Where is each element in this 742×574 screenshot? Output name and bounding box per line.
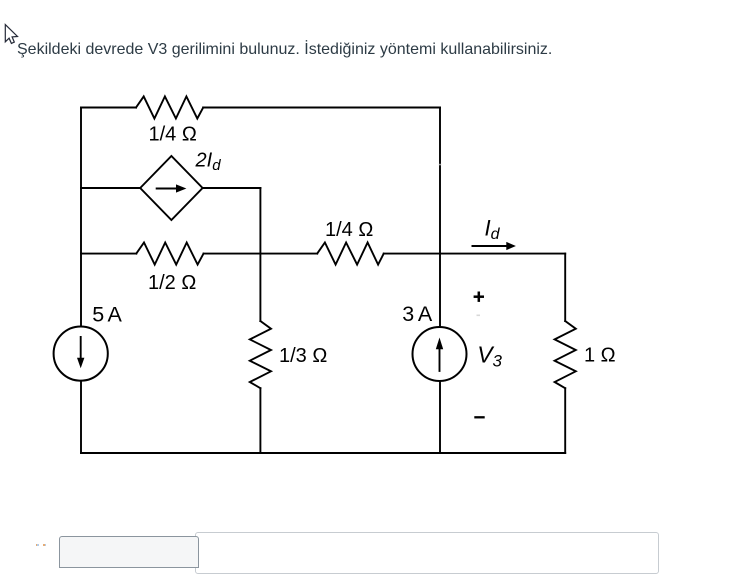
label: plus sign of V3: [474, 292, 484, 302]
svg-text:V3: V3: [477, 341, 502, 370]
svg-text:1/3 Ω: 1/3 Ω: [279, 345, 327, 367]
wire: middle horizontal segment A (left node to 1/2 ohm): [81, 253, 136, 255]
current Id arrow (top right): [472, 242, 516, 250]
current source I2 3A circle: [413, 327, 467, 381]
wire: top horizontal right segment: [203, 107, 440, 109]
svg-text:3 A: 3 A: [402, 302, 433, 326]
wire: left vertical upper (top node to 5A source): [80, 108, 82, 327]
answer input box (bottom): [195, 532, 659, 574]
resistor R5 1 ohm (vertical): [555, 321, 576, 388]
toolbar tab box (bottom left): [59, 536, 199, 568]
wire: dependent-source branch left: [81, 187, 140, 189]
resistor R3 1/4 ohm (middle right): [317, 243, 384, 265]
svg-text:Id: Id: [485, 215, 501, 243]
wire: vertical at x=440 upper (top wire down to 3A source): [439, 108, 441, 327]
svg-text:1/2 Ω: 1/2 Ω: [148, 272, 196, 294]
resistor R4 1/3 ohm (vertical): [250, 321, 271, 388]
mouse cursor: [5, 25, 17, 44]
wire: bottom horizontal: [81, 452, 565, 454]
svg-text:5 A: 5 A: [92, 303, 122, 327]
wire: middle horizontal segment C (1/4 ohm to right node): [384, 253, 566, 255]
wire: dependent-source branch right: [203, 187, 261, 189]
arrow of 3A source (up): [436, 338, 443, 372]
resistor R2 1/2 ohm (middle left): [136, 243, 203, 265]
wire: vertical at x=260 upper (diamond node down to 1/3 ohm): [259, 188, 261, 321]
svg-text:1/4 Ω: 1/4 Ω: [325, 219, 373, 241]
wire: right vertical upper (middle wire down to 1 ohm): [564, 254, 566, 321]
dependent current source U1 diamond 2Id: [140, 156, 202, 220]
current source I1 5A circle: [54, 327, 108, 381]
resistor R1 1/4 ohm (top): [136, 96, 203, 118]
wire: left vertical lower (5A source to bottom): [80, 381, 82, 453]
image stitch artifact on vertical wire: [439, 164, 441, 166]
wire: vertical at x=440 lower (3A source to bottom): [439, 381, 441, 453]
arrow of 5A source (down): [77, 336, 84, 368]
speck icons cut off at bottom: [36, 544, 38, 546]
artifact dot below plus: [477, 315, 481, 317]
question text: [17, 42, 552, 58]
wire: right vertical lower (1 ohm to bottom): [564, 388, 566, 453]
wire: vertical at x=260 lower (1/3 ohm to bottom): [259, 388, 261, 453]
arrow of dependent source U1: [156, 184, 187, 192]
svg-text:1 Ω: 1 Ω: [584, 344, 616, 366]
label: minus sign of V3: [474, 416, 484, 418]
svg-text:1/4 Ω: 1/4 Ω: [149, 124, 197, 146]
wire: middle horizontal segment B (1/2 ohm to 1/4 ohm): [204, 253, 318, 255]
wire: top horizontal left segment: [81, 107, 136, 109]
svg-text:2Id: 2Id: [195, 150, 222, 175]
